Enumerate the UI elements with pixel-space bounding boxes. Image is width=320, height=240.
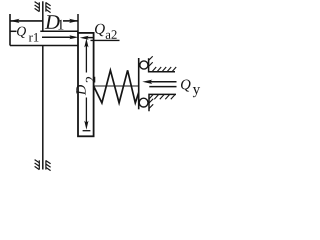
top wall hatch anchor bbox=[35, 2, 51, 13]
flow arrow Q_a2 (leftward) bbox=[87, 37, 94, 39]
label Q_y subscript y bbox=[193, 87, 200, 97]
label D2 subscript 2 rotated bbox=[86, 77, 95, 83]
dimension D1 right arrowhead bbox=[69, 19, 78, 23]
top wall hatching bbox=[149, 56, 177, 71]
spring bbox=[94, 70, 139, 103]
label Q_r1 letter Q bbox=[17, 27, 26, 38]
force arrow Q_y bbox=[150, 81, 177, 83]
top roller bbox=[140, 61, 148, 69]
dimension D1 left arrowhead bbox=[10, 19, 19, 23]
label Q_a2 subscript a2 bbox=[106, 30, 117, 39]
left port end wall bbox=[9, 14, 11, 46]
dimension D2 end tick bbox=[83, 130, 91, 132]
label D1 letter D bbox=[45, 15, 60, 29]
bottom wall hatch anchor bbox=[35, 160, 51, 171]
label D1 subscript 1 bbox=[58, 20, 63, 30]
bottom wall hatching bbox=[149, 95, 175, 109]
bottom fixed wall face and ledge bbox=[149, 94, 176, 111]
top fixed wall face and ledge bbox=[149, 58, 175, 72]
label Q_a2 letter Q bbox=[95, 24, 105, 37]
channel upper wall line bbox=[10, 30, 17, 32]
spool plunger body bbox=[78, 33, 94, 136]
dimension D2 line bbox=[85, 43, 87, 125]
dimension D1 line bbox=[10, 20, 44, 22]
fixed wall lower segment bbox=[42, 46, 44, 170]
flow arrow into clearance (rightward) bbox=[42, 36, 71, 38]
second force line bbox=[149, 86, 176, 88]
label D2 letter D rotated bbox=[76, 85, 85, 95]
fixed wall upper segment bbox=[42, 1, 44, 31]
spring seat plate bbox=[138, 58, 140, 109]
underline leader of Q_a2 bbox=[91, 39, 120, 41]
extension line above spool bbox=[77, 14, 79, 33]
channel lower wall line bbox=[10, 45, 78, 47]
spring centerline bbox=[94, 85, 139, 87]
label Q_r1 subscript r1 bbox=[29, 33, 39, 42]
bottom roller bbox=[139, 98, 148, 107]
label Q_y letter Q bbox=[181, 80, 191, 92]
